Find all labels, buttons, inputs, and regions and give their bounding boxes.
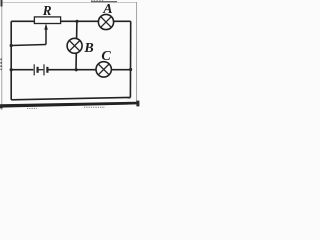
wire rheostat slider rail [11,45,46,46]
frame top edge [2,1,137,3]
lamp B [67,38,82,53]
wire middle rail right segment [48,69,130,71]
junction node slider on left rail [10,44,13,47]
battery cell 2 negative plate [46,67,48,73]
wire left vertical [10,21,12,100]
svg-text:C: C [101,49,111,64]
junction node bottom of B branch [75,68,78,71]
wire lamp B branch [75,21,78,69]
wire right vertical [129,21,131,97]
svg-text:B: B [83,41,93,56]
wire bottom rail [11,97,130,99]
frame top edge dark segment [91,1,117,3]
battery cell 2 positive plate [43,64,45,75]
resistor R body [34,17,60,24]
svg-text:R: R [42,3,52,18]
wire middle rail left segment [11,69,33,71]
battery cell 1 positive plate [33,64,35,75]
junction node middle rail right [129,68,132,71]
frame bottom-left corner blob [0,105,3,109]
svg-text:A: A [102,2,112,17]
frame right edge [136,2,138,103]
rheostat arrowhead [44,23,48,30]
frame bottom band [0,102,137,108]
frame left edge ticks [0,59,2,71]
junction node battery on left rail [10,68,13,71]
lamp C [96,62,111,77]
frame top edge dotted texture [91,0,104,2]
lamp A [98,14,113,29]
frame top-left dark segment [1,0,3,7]
wire top rail [11,20,131,22]
wire battery stub [39,69,44,71]
wire rheostat slider shaft [45,29,47,45]
frame bottom-right corner blob [136,101,139,107]
frame left edge [1,0,3,110]
junction node top of B branch [75,20,78,23]
frame bottom hatch marks [27,107,37,109]
battery cell 1 negative plate [36,67,38,73]
